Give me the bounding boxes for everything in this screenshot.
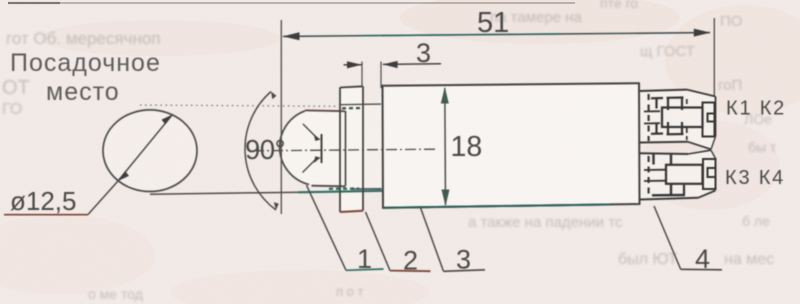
flange bottom edge (red tint)	[340, 211, 363, 212]
connector top nub	[703, 103, 715, 137]
connector top inner details	[644, 98, 684, 135]
connector bottom small square	[708, 168, 716, 177]
mounting hole circle	[103, 110, 197, 192]
long projection line (teal)	[150, 192, 300, 194]
connector bottom blade	[666, 165, 703, 184]
neck bottom line	[352, 188, 382, 190]
hidden dome edge dashes bottom	[329, 187, 359, 190]
flange top edge	[340, 86, 363, 87]
dim 51 arrow left	[283, 32, 300, 40]
dim 3 right tail	[383, 63, 441, 66]
connector bottom nub	[703, 159, 716, 189]
connector top blade	[662, 108, 703, 128]
lamp dome arc	[280, 111, 309, 185]
dome bottom edge	[312, 185, 346, 188]
dim 3 ext line A	[361, 62, 363, 88]
diameter arrow lower	[118, 171, 129, 181]
centerline dash-dot	[253, 149, 436, 151]
dim 18 arrow down	[442, 190, 450, 207]
dim 51 arrow right	[694, 29, 711, 37]
dim 51 line	[283, 33, 710, 37]
dim 51 ext line left	[280, 20, 282, 214]
underline 4	[681, 268, 722, 271]
90 degree arc	[245, 92, 276, 211]
bright paper interiors	[104, 111, 196, 190]
body rectangle	[383, 83, 640, 208]
dome seat edge	[345, 111, 347, 186]
dim 3 arrow pointing right	[347, 61, 362, 68]
connector top small square	[708, 114, 715, 122]
dim 51 ext line right	[713, 18, 715, 97]
flange right edge	[362, 86, 364, 210]
leader to ø12,5	[88, 181, 118, 215]
connector bottom inner details	[644, 154, 685, 195]
connector top hidden dashed lines	[647, 94, 649, 141]
connector bottom housing	[640, 150, 716, 199]
leader 4	[654, 206, 681, 269]
ray lower arrowhead	[314, 156, 321, 163]
underline 2 (red)	[390, 270, 431, 273]
dome top edge	[305, 109, 345, 112]
body bottom teal overlay	[385, 205, 610, 208]
diameter arrow upper	[162, 115, 173, 125]
dim 18 arrow up	[441, 87, 449, 104]
connector top housing	[640, 90, 716, 150]
dim 18 line	[444, 88, 447, 205]
flange left edge	[339, 88, 341, 213]
underline 3	[444, 270, 486, 272]
leader 2	[366, 212, 391, 271]
dim 3 left tail	[344, 64, 362, 66]
lamp emitter bar	[321, 134, 323, 163]
underline 1 (teal)	[346, 269, 384, 270]
leader 3	[420, 206, 444, 271]
dim 3 arrow pointing left	[383, 61, 398, 68]
dotted projection line	[140, 105, 339, 106]
emitter ray lower	[303, 160, 316, 173]
connector bottom hidden dashed line	[647, 156, 649, 198]
scan top edge	[8, 2, 575, 4]
neck top line	[341, 103, 381, 106]
leader 1	[307, 185, 347, 270]
underline red tint	[4, 214, 88, 216]
hidden dome edge dashes top	[342, 107, 363, 110]
ray upper arrowhead	[314, 134, 321, 141]
dim 3 ext line B	[380, 62, 382, 89]
emitter ray upper	[303, 124, 316, 137]
diameter dimension line	[118, 115, 173, 182]
